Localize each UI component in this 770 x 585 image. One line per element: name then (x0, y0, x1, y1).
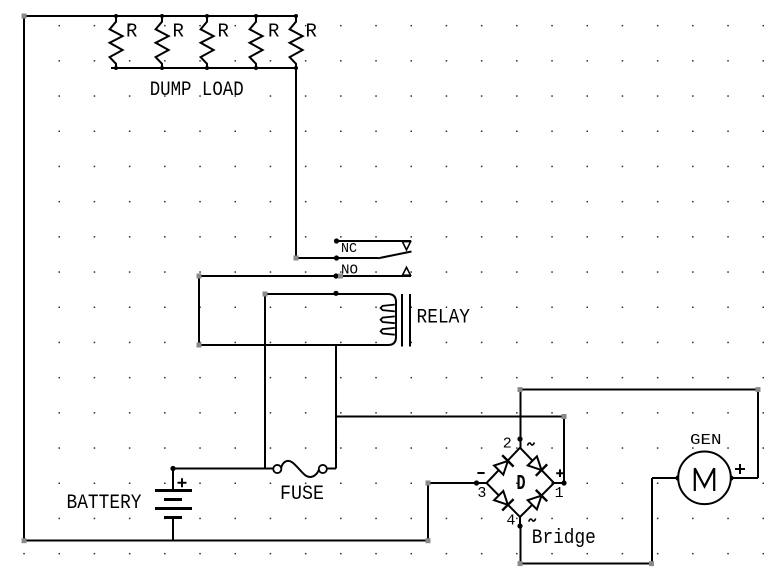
svg-text:NC: NC (341, 242, 357, 257)
svg-text:3: 3 (477, 485, 486, 502)
svg-text:2: 2 (503, 436, 512, 453)
svg-text:NO: NO (341, 263, 358, 278)
svg-text:1: 1 (555, 485, 564, 502)
svg-text:4: 4 (506, 512, 515, 529)
svg-text:R: R (173, 20, 184, 42)
svg-text:R: R (268, 20, 279, 42)
svg-text:DUMP LOAD: DUMP LOAD (150, 79, 244, 102)
svg-text:BATTERY: BATTERY (67, 492, 142, 515)
svg-text:RELAY: RELAY (417, 307, 471, 330)
svg-text:FUSE: FUSE (280, 483, 324, 506)
svg-text:Bridge: Bridge (532, 527, 596, 550)
svg-text:R: R (126, 20, 137, 42)
svg-text:GEN: GEN (690, 432, 722, 449)
svg-text:R: R (218, 20, 229, 42)
svg-text:D: D (517, 473, 526, 496)
svg-text:R: R (306, 20, 317, 42)
